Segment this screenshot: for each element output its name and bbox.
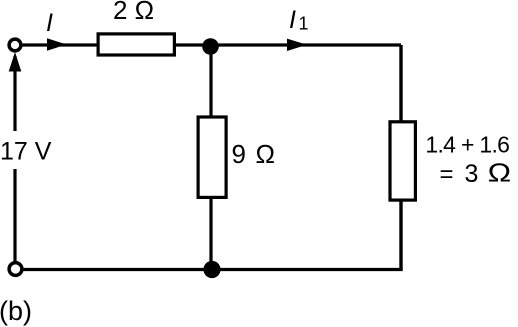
svg-text:17 V: 17 V xyxy=(0,138,52,166)
svg-text:I: I xyxy=(289,6,296,34)
svg-text:(b): (b) xyxy=(0,296,32,326)
svg-text:1.4 + 1.6: 1.4 + 1.6 xyxy=(425,131,509,157)
svg-text:Ω: Ω xyxy=(488,158,512,188)
svg-text:3: 3 xyxy=(465,160,479,188)
svg-text:I: I xyxy=(46,9,53,37)
svg-text:2 Ω: 2 Ω xyxy=(113,0,154,25)
svg-text:=: = xyxy=(440,161,454,188)
svg-text:9: 9 xyxy=(232,139,246,169)
svg-text:Ω: Ω xyxy=(256,139,276,169)
svg-text:1: 1 xyxy=(299,14,309,34)
